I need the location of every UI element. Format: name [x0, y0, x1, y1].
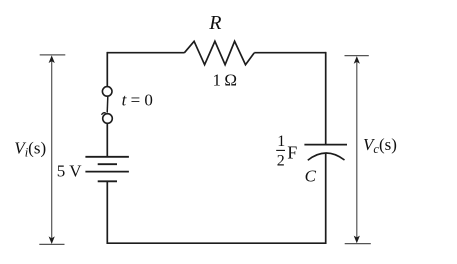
wire right lower vertical segment	[325, 153, 327, 244]
svg-text:1: 1	[277, 133, 285, 150]
wire top-left horizontal segment	[107, 52, 184, 54]
wire left upper vertical segment	[106, 52, 108, 87]
battery V1 plate short bottom	[98, 180, 117, 182]
switch blade	[106, 97, 109, 113]
switch top contact circle	[102, 87, 112, 97]
capacitor C top plate	[304, 144, 347, 146]
node Vi dimension top tick	[40, 54, 66, 56]
wire switch-to-battery vertical segment	[106, 124, 108, 157]
svg-text:t = 0: t = 0	[122, 91, 153, 110]
node Vc arrowhead up	[354, 56, 360, 64]
resistor R	[184, 41, 254, 64]
svg-text:R: R	[208, 12, 221, 34]
node Vi dimension arrow line	[51, 60, 53, 240]
node Vi dimension bottom tick	[39, 243, 64, 245]
node Vi arrowhead down	[49, 236, 55, 244]
node Vc arrowhead down	[354, 236, 360, 244]
wire right upper vertical segment	[325, 52, 327, 146]
svg-text:5 V: 5 V	[57, 162, 82, 181]
wire bottom horizontal segment	[107, 242, 327, 244]
svg-text:C: C	[305, 166, 317, 185]
node Vi arrowhead up	[49, 55, 55, 63]
battery V1 plate long bottom	[85, 171, 128, 173]
svg-text:Vi(s): Vi(s)	[14, 138, 46, 159]
node Vc dimension arrow line	[356, 61, 358, 239]
svg-text:Vc(s): Vc(s)	[363, 135, 397, 156]
capacitor value 1/2 F	[276, 133, 297, 170]
node Vc dimension bottom tick	[345, 243, 371, 245]
battery V1 plate long top	[85, 156, 128, 158]
svg-text:1 Ω: 1 Ω	[213, 70, 238, 89]
switch blade hook arc	[102, 113, 106, 115]
wire battery-to-bottom vertical segment	[106, 181, 108, 244]
capacitor C curved plate	[308, 153, 345, 160]
svg-text:F: F	[287, 143, 297, 163]
node Vc dimension top tick	[345, 55, 369, 57]
switch bottom contact circle	[103, 114, 113, 124]
battery V1 plate short	[98, 163, 117, 165]
svg-text:2: 2	[277, 153, 285, 170]
wire top-right horizontal segment	[254, 52, 326, 54]
